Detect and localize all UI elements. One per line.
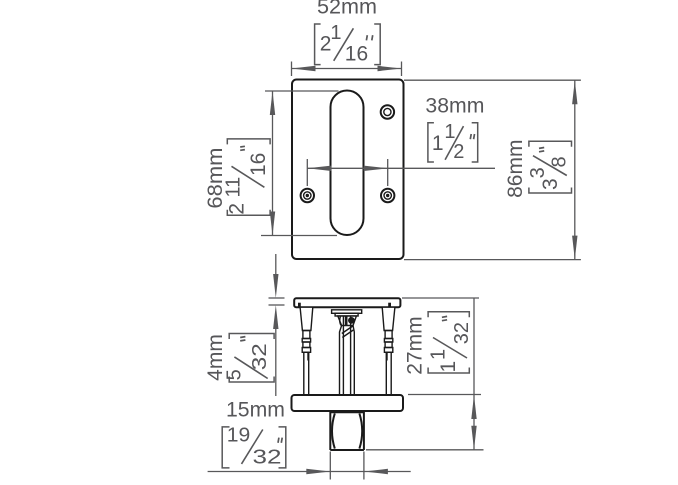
svg-text:2: 2 bbox=[453, 141, 464, 163]
68mm top extension line bbox=[265, 90, 339, 92]
top right screw hole bbox=[381, 105, 394, 118]
svg-text:1: 1 bbox=[437, 361, 460, 373]
svg-text:32: 32 bbox=[451, 322, 473, 344]
pivot dot bbox=[348, 317, 355, 324]
svg-text:27mm: 27mm bbox=[403, 316, 426, 374]
left post pin mark bbox=[307, 352, 309, 360]
86mm dimension line bbox=[572, 80, 577, 259]
latch housing top bbox=[332, 310, 362, 314]
svg-text:16: 16 bbox=[345, 43, 368, 66]
latch housing lower bbox=[335, 313, 358, 316]
right post taper bbox=[382, 307, 395, 330]
latch funnel bbox=[338, 316, 357, 326]
right post pin mark bbox=[386, 352, 388, 360]
19/32 inch bracket bbox=[222, 424, 286, 468]
svg-text:15mm: 15mm bbox=[226, 399, 285, 422]
15mm dimension line bbox=[208, 452, 411, 480]
left post collar bbox=[302, 331, 310, 353]
center column bbox=[340, 316, 355, 395]
86mm bottom extension line bbox=[404, 259, 581, 261]
svg-text:5: 5 bbox=[224, 369, 246, 380]
27mm top extension line bbox=[402, 297, 479, 299]
left screw hole bbox=[301, 189, 314, 202]
27mm mid extension line bbox=[408, 394, 481, 396]
1 1/32 inch bracket (rotated) bbox=[427, 312, 473, 373]
svg-text:3: 3 bbox=[539, 178, 562, 190]
27mm dimension line bbox=[471, 298, 476, 450]
4mm upper leader with arrow bbox=[269, 254, 285, 396]
svg-text:11: 11 bbox=[223, 177, 245, 198]
52mm dimension line bbox=[292, 62, 402, 77]
svg-text:1: 1 bbox=[444, 121, 455, 143]
bottom face plate (side view) bbox=[292, 395, 404, 411]
52mm inch bracket bbox=[315, 22, 381, 66]
68mm bottom extension line bbox=[261, 235, 337, 237]
86mm inch bracket (rotated) bbox=[527, 141, 572, 193]
svg-text:1: 1 bbox=[330, 22, 341, 44]
38mm dimension line bbox=[307, 167, 495, 169]
face plate bbox=[292, 80, 404, 260]
right post collar bbox=[384, 331, 392, 353]
svg-text:32: 32 bbox=[249, 343, 271, 370]
right screw head mark bbox=[388, 303, 391, 307]
38mm inch bracket bbox=[428, 121, 478, 163]
pivot wedge bbox=[345, 316, 348, 325]
38mm hole extension lines bbox=[306, 159, 308, 186]
68mm inch bracket (rotated) bbox=[223, 139, 271, 215]
svg-text:52mm: 52mm bbox=[317, 0, 377, 18]
pull knob cylinder bbox=[330, 411, 364, 450]
svg-text:16: 16 bbox=[247, 153, 270, 176]
68mm dimension line bbox=[270, 91, 275, 236]
top mounting plate (side view) bbox=[294, 298, 400, 307]
svg-text:1: 1 bbox=[432, 132, 444, 155]
svg-text:2: 2 bbox=[225, 203, 248, 215]
svg-text:8: 8 bbox=[549, 156, 571, 167]
right post rod bbox=[386, 352, 391, 395]
svg-text:19: 19 bbox=[227, 424, 251, 446]
5/32 inch bracket (rotated) bbox=[224, 334, 274, 383]
right screw hole bbox=[381, 189, 394, 202]
svg-text:1: 1 bbox=[427, 349, 449, 360]
left post taper bbox=[300, 307, 313, 330]
pivot lever curve bbox=[340, 317, 341, 326]
86mm top extension line bbox=[404, 79, 581, 81]
left post rod bbox=[304, 352, 309, 395]
svg-text:3: 3 bbox=[527, 167, 549, 178]
finger slot bbox=[331, 91, 364, 236]
38mm arrows bbox=[307, 166, 331, 171]
svg-text:86mm: 86mm bbox=[504, 140, 527, 198]
27mm bottom extension line bbox=[366, 449, 484, 451]
left screw head mark bbox=[298, 303, 301, 307]
spring hatch bbox=[342, 326, 353, 334]
svg-text:32: 32 bbox=[253, 445, 282, 468]
svg-text:38mm: 38mm bbox=[425, 94, 484, 117]
